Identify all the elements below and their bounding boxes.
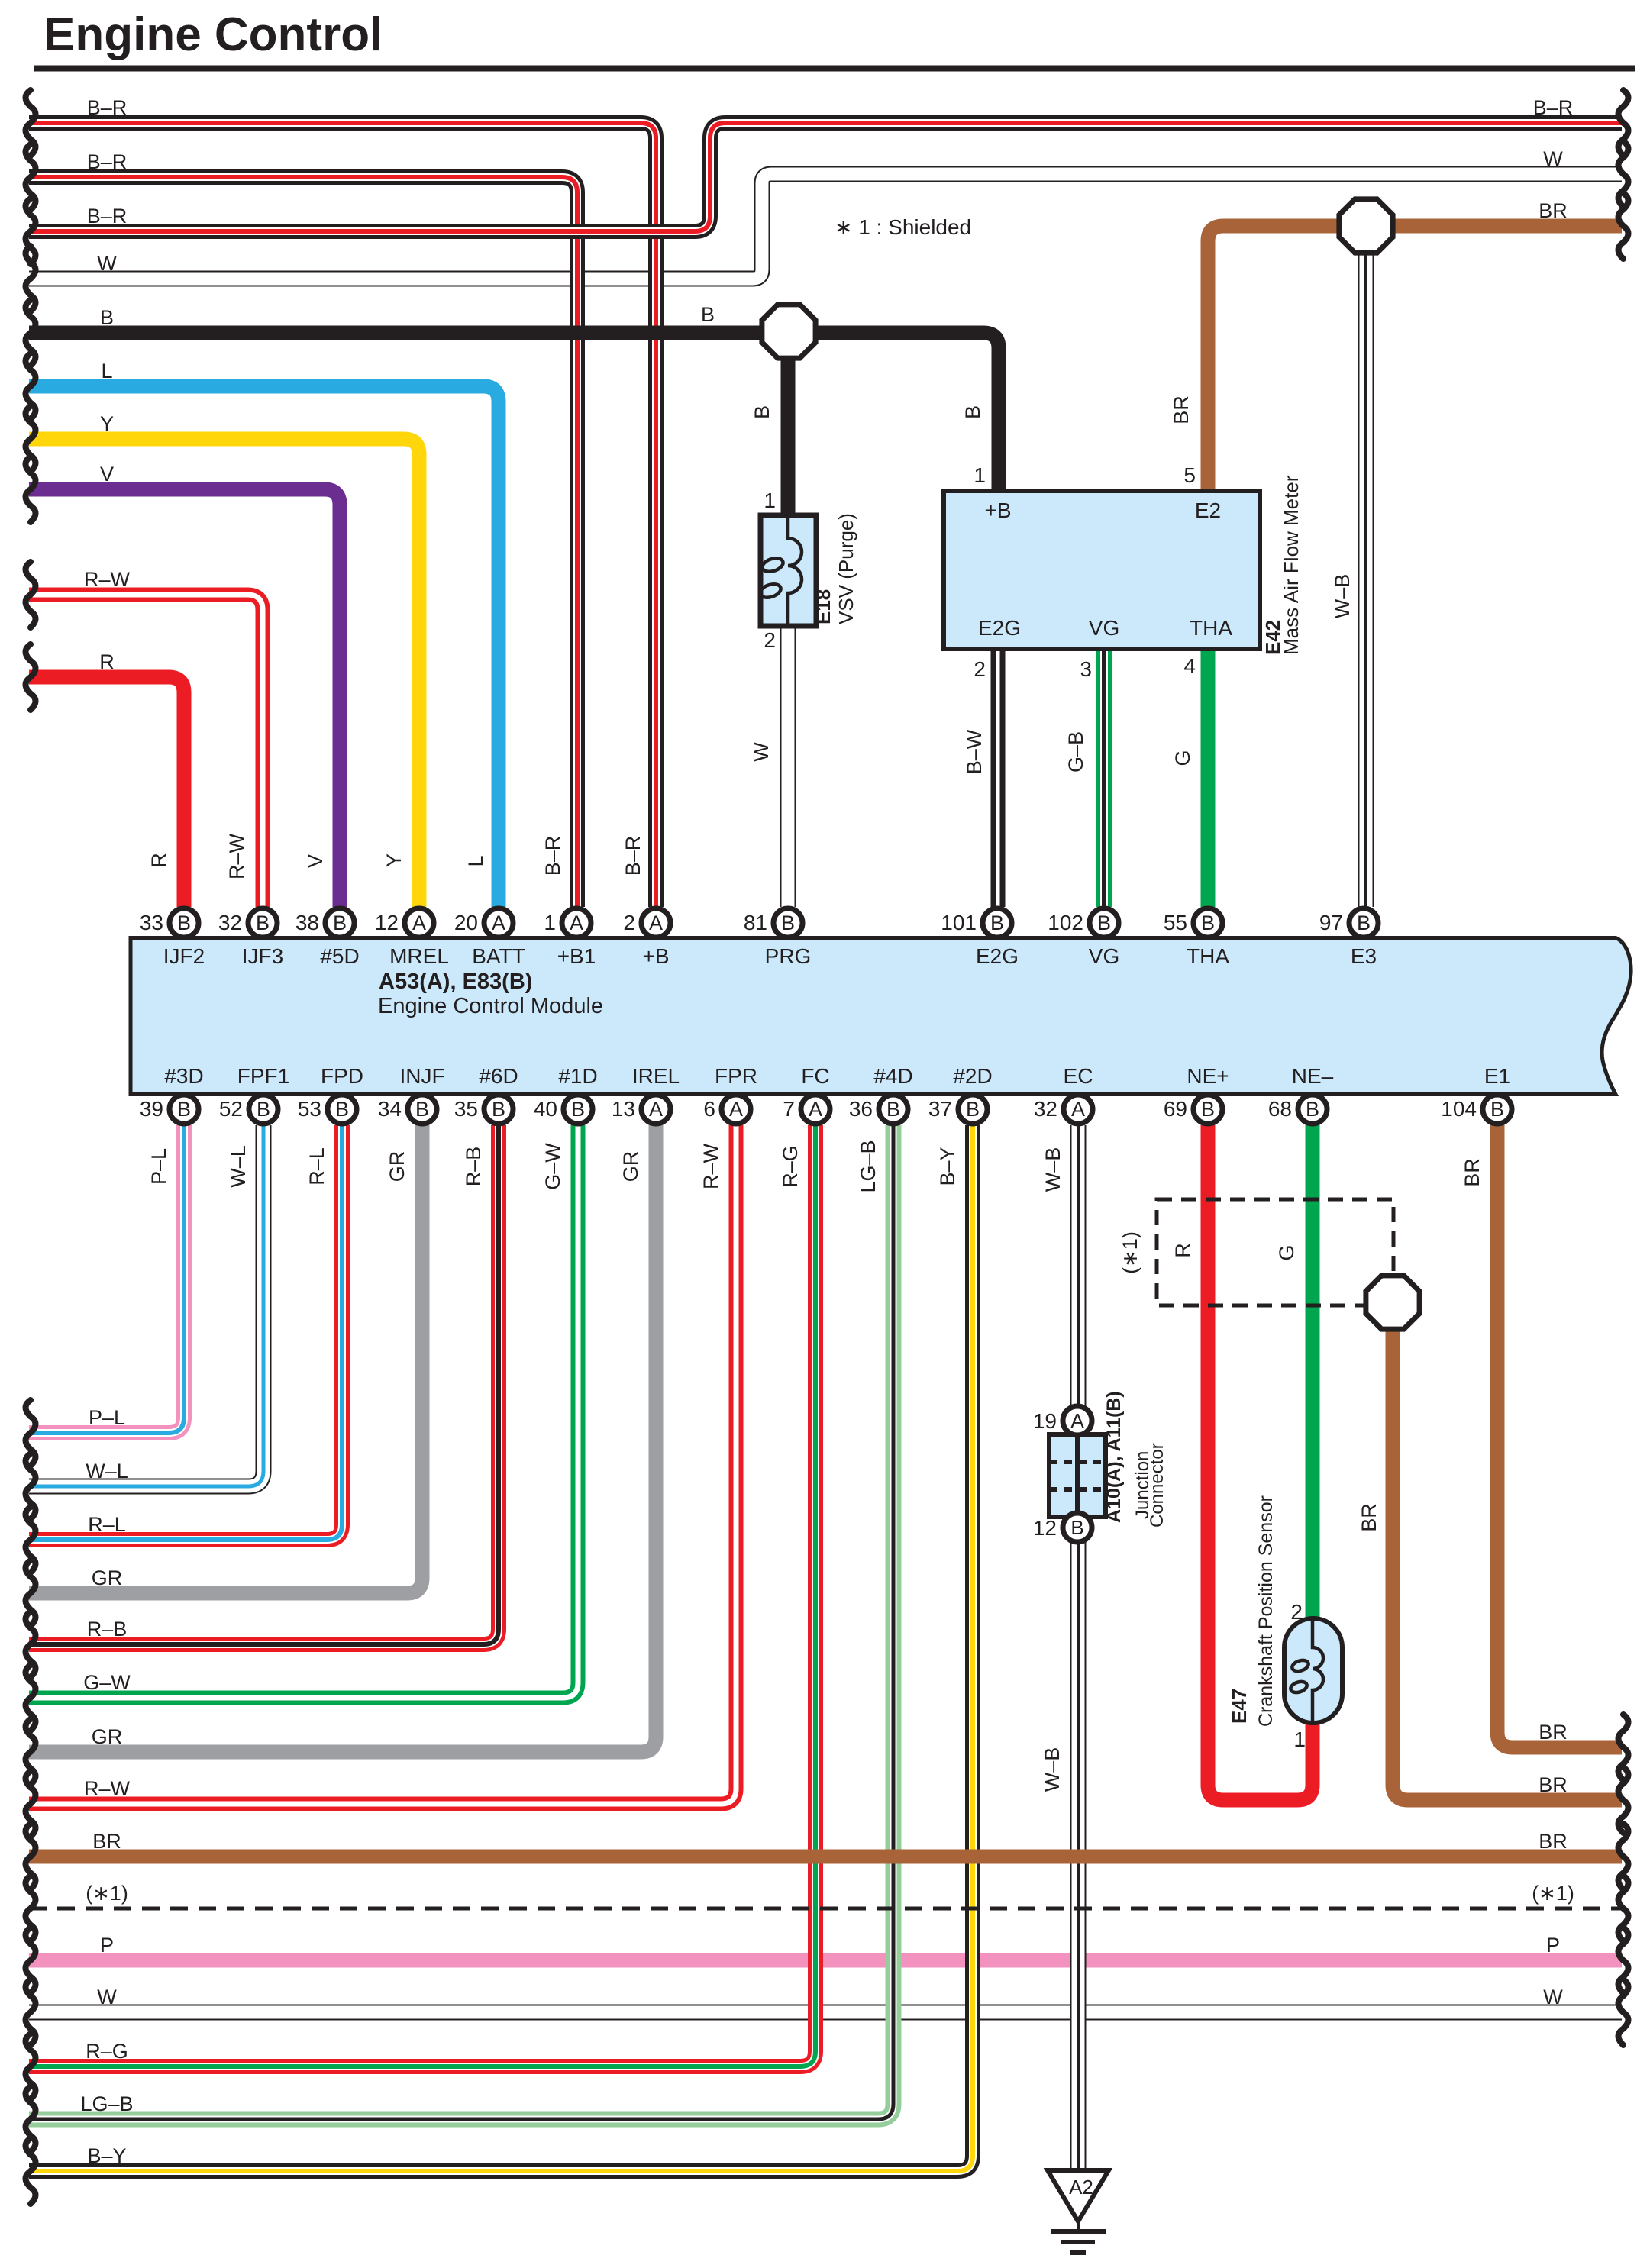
svg-text:W–B: W–B — [1041, 1747, 1064, 1792]
svg-text:B: B — [256, 911, 270, 934]
svg-text:R–W: R–W — [84, 1777, 131, 1800]
svg-text:B: B — [990, 911, 1004, 934]
svg-text:2: 2 — [764, 628, 776, 652]
svg-text:VSV (Purge): VSV (Purge) — [835, 513, 857, 624]
svg-text:B: B — [781, 911, 795, 934]
svg-text:35: 35 — [454, 1097, 478, 1121]
svg-text:B: B — [1357, 911, 1371, 934]
svg-text:E47: E47 — [1228, 1689, 1251, 1724]
svg-text:IJF2: IJF2 — [163, 944, 205, 968]
svg-text:33: 33 — [140, 911, 163, 934]
svg-text:68: 68 — [1268, 1097, 1292, 1121]
svg-text:B: B — [961, 405, 984, 419]
svg-text:FPR: FPR — [715, 1064, 757, 1088]
svg-text:P: P — [100, 1934, 114, 1957]
svg-text:1: 1 — [974, 463, 986, 487]
svg-text:R–L: R–L — [305, 1147, 328, 1186]
svg-text:B–R: B–R — [541, 836, 564, 876]
svg-text:W–L: W–L — [227, 1145, 250, 1188]
svg-text:Y: Y — [100, 412, 114, 435]
svg-text:3: 3 — [1080, 657, 1092, 681]
svg-text:W: W — [750, 742, 773, 762]
svg-text:1: 1 — [544, 911, 556, 934]
svg-text:40: 40 — [534, 1097, 557, 1121]
svg-text:13: 13 — [612, 1097, 635, 1121]
svg-text:20: 20 — [454, 911, 478, 934]
svg-text:BR: BR — [1461, 1158, 1484, 1187]
svg-text:GR: GR — [92, 1725, 123, 1748]
svg-text:A10(A), A11(B): A10(A), A11(B) — [1103, 1391, 1125, 1523]
svg-text:#5D: #5D — [320, 944, 359, 968]
svg-text:E3: E3 — [1351, 944, 1377, 968]
svg-text:G–B: G–B — [1064, 731, 1087, 773]
svg-text:B: B — [100, 306, 114, 329]
svg-text:E2: E2 — [1195, 498, 1221, 522]
svg-text:97: 97 — [1319, 911, 1343, 934]
svg-text:R–L: R–L — [88, 1513, 126, 1536]
svg-text:B: B — [177, 1098, 191, 1121]
svg-text:R: R — [1171, 1243, 1194, 1258]
svg-text:A: A — [649, 911, 663, 934]
svg-text:V: V — [304, 854, 327, 868]
svg-text:W: W — [97, 252, 117, 275]
svg-text:81: 81 — [744, 911, 767, 934]
svg-text:B–Y: B–Y — [936, 1147, 959, 1186]
svg-text:B–R: B–R — [87, 96, 128, 119]
svg-text:P: P — [1546, 1934, 1560, 1957]
svg-text:B: B — [886, 1098, 900, 1121]
svg-text:B: B — [1097, 911, 1111, 934]
svg-text:7: 7 — [783, 1097, 795, 1121]
svg-text:W–B: W–B — [1331, 574, 1354, 619]
svg-text:G–W: G–W — [541, 1143, 564, 1190]
svg-text:12: 12 — [375, 911, 399, 934]
svg-text:A53(A), E83(B): A53(A), E83(B) — [379, 969, 532, 994]
svg-text:#2D: #2D — [953, 1064, 992, 1088]
svg-text:B: B — [701, 303, 715, 326]
svg-text:A2: A2 — [1069, 2176, 1093, 2199]
svg-text:A: A — [1070, 1409, 1084, 1432]
svg-text:2: 2 — [1290, 1600, 1303, 1624]
svg-text:R: R — [147, 853, 170, 868]
svg-text:B: B — [1490, 1098, 1504, 1121]
svg-text:A: A — [1071, 1098, 1085, 1121]
svg-text:R: R — [99, 650, 115, 673]
svg-text:INJF: INJF — [399, 1064, 444, 1088]
svg-text:Y: Y — [383, 853, 405, 867]
svg-text:BR: BR — [1539, 1773, 1568, 1796]
svg-text:B: B — [571, 1098, 585, 1121]
svg-text:B–R: B–R — [87, 205, 128, 227]
svg-text:THA: THA — [1190, 616, 1232, 640]
svg-text:2: 2 — [974, 657, 986, 681]
svg-text:1: 1 — [764, 489, 776, 512]
svg-text:55: 55 — [1164, 911, 1187, 934]
svg-text:P–L: P–L — [89, 1406, 125, 1429]
svg-text:A: A — [649, 1098, 663, 1121]
svg-text:37: 37 — [928, 1097, 952, 1121]
svg-text:B: B — [1306, 1098, 1319, 1121]
svg-text:B–R: B–R — [1533, 96, 1574, 119]
svg-text:W–L: W–L — [86, 1460, 128, 1482]
svg-text:E2G: E2G — [976, 944, 1019, 968]
svg-text:2: 2 — [623, 911, 635, 934]
svg-text:EC: EC — [1064, 1064, 1093, 1088]
svg-text:THA: THA — [1187, 944, 1229, 968]
svg-text:5: 5 — [1183, 463, 1196, 487]
svg-text:Crankshaft Position Sensor: Crankshaft Position Sensor — [1255, 1495, 1277, 1727]
svg-text:BR: BR — [92, 1830, 121, 1853]
svg-text:P–L: P–L — [147, 1148, 170, 1185]
svg-text:L: L — [101, 360, 112, 382]
svg-text:LG–B: LG–B — [857, 1140, 880, 1192]
svg-text:39: 39 — [140, 1097, 163, 1121]
svg-text:B: B — [1201, 1098, 1215, 1121]
svg-text:BR: BR — [1539, 1721, 1568, 1744]
svg-text:R–W: R–W — [699, 1143, 722, 1189]
svg-text:∗ 1 : Shielded: ∗ 1 : Shielded — [835, 215, 971, 239]
svg-text:A: A — [492, 911, 505, 934]
svg-text:(∗1): (∗1) — [86, 1882, 128, 1905]
svg-text:Mass Air Flow Meter: Mass Air Flow Meter — [1280, 475, 1303, 655]
svg-text:Engine Control Module: Engine Control Module — [378, 994, 603, 1018]
svg-text:E18: E18 — [812, 589, 835, 624]
svg-text:NE–: NE– — [1292, 1064, 1334, 1088]
svg-text:GR: GR — [92, 1566, 123, 1589]
svg-text:1: 1 — [1293, 1728, 1306, 1751]
svg-text:36: 36 — [849, 1097, 873, 1121]
svg-text:102: 102 — [1048, 911, 1083, 934]
svg-text:38: 38 — [295, 911, 319, 934]
svg-text:52: 52 — [219, 1097, 243, 1121]
svg-text:FPF1: FPF1 — [237, 1064, 289, 1088]
svg-text:(∗1): (∗1) — [1119, 1231, 1141, 1274]
svg-text:4: 4 — [1183, 654, 1196, 678]
svg-text:B: B — [966, 1098, 980, 1121]
svg-text:+B: +B — [642, 944, 669, 968]
svg-text:34: 34 — [378, 1097, 402, 1121]
svg-text:W: W — [97, 1986, 117, 2008]
svg-text:+B1: +B1 — [557, 944, 596, 968]
svg-text:G: G — [1171, 750, 1194, 766]
svg-text:G–W: G–W — [83, 1671, 131, 1694]
svg-text:LG–B: LG–B — [80, 2092, 133, 2115]
svg-text:A: A — [809, 1098, 822, 1121]
svg-text:#3D: #3D — [164, 1064, 203, 1088]
svg-text:#6D: #6D — [479, 1064, 518, 1088]
svg-text:VG: VG — [1089, 944, 1119, 968]
svg-text:Engine Control: Engine Control — [44, 8, 383, 61]
svg-text:12: 12 — [1033, 1516, 1057, 1540]
svg-text:NE+: NE+ — [1187, 1064, 1229, 1088]
svg-text:B: B — [335, 1098, 349, 1121]
svg-text:BR: BR — [1539, 1830, 1568, 1853]
svg-text:53: 53 — [298, 1097, 321, 1121]
svg-text:BATT: BATT — [472, 944, 525, 968]
svg-text:B: B — [1201, 911, 1215, 934]
svg-text:MREL: MREL — [389, 944, 449, 968]
svg-text:6: 6 — [703, 1097, 715, 1121]
svg-text:GR: GR — [386, 1151, 408, 1182]
svg-text:VG: VG — [1089, 616, 1119, 640]
svg-text:A: A — [412, 911, 426, 934]
svg-text:R–W: R–W — [225, 833, 248, 879]
svg-text:L: L — [464, 855, 487, 866]
svg-text:#4D: #4D — [873, 1064, 912, 1088]
svg-text:W: W — [1543, 147, 1563, 170]
svg-text:B–R: B–R — [87, 150, 128, 173]
svg-text:B: B — [257, 1098, 270, 1121]
svg-text:32: 32 — [218, 911, 242, 934]
svg-text:W: W — [1543, 1986, 1563, 2008]
svg-text:R–B: R–B — [462, 1147, 485, 1187]
svg-text:R–B: R–B — [87, 1618, 128, 1641]
svg-text:G: G — [1275, 1244, 1298, 1260]
svg-text:IREL: IREL — [632, 1064, 680, 1088]
svg-text:A: A — [729, 1098, 743, 1121]
svg-text:BR: BR — [1170, 395, 1193, 424]
svg-text:BR: BR — [1539, 199, 1568, 222]
svg-text:W–B: W–B — [1041, 1147, 1064, 1192]
svg-text:PRG: PRG — [765, 944, 812, 968]
svg-text:B: B — [751, 405, 773, 419]
svg-text:V: V — [100, 463, 114, 486]
svg-text:B–R: B–R — [622, 836, 644, 876]
svg-text:32: 32 — [1034, 1097, 1057, 1121]
svg-text:B–W: B–W — [963, 729, 986, 774]
svg-text:GR: GR — [619, 1151, 642, 1182]
svg-text:FC: FC — [801, 1064, 829, 1088]
svg-text:Connector: Connector — [1147, 1443, 1167, 1528]
svg-text:BR: BR — [1358, 1503, 1380, 1532]
svg-text:E2G: E2G — [978, 616, 1021, 640]
svg-text:B: B — [492, 1098, 505, 1121]
svg-text:B: B — [177, 911, 191, 934]
svg-text:A: A — [570, 911, 583, 934]
svg-text:B: B — [333, 911, 347, 934]
svg-text:R–G: R–G — [779, 1145, 802, 1188]
svg-text:19: 19 — [1033, 1409, 1057, 1433]
svg-text:R–G: R–G — [86, 2040, 128, 2063]
svg-text:104: 104 — [1441, 1097, 1477, 1121]
svg-text:E1: E1 — [1484, 1064, 1510, 1088]
svg-text:B: B — [415, 1098, 429, 1121]
svg-text:+B: +B — [984, 498, 1011, 522]
svg-text:101: 101 — [941, 911, 977, 934]
svg-text:69: 69 — [1164, 1097, 1187, 1121]
svg-text:#1D: #1D — [558, 1064, 597, 1088]
svg-text:B–Y: B–Y — [87, 2144, 126, 2167]
svg-text:R–W: R–W — [84, 568, 131, 591]
svg-text:FPD: FPD — [321, 1064, 363, 1088]
svg-text:(∗1): (∗1) — [1532, 1882, 1574, 1905]
svg-text:IJF3: IJF3 — [242, 944, 283, 968]
svg-text:B: B — [1070, 1516, 1083, 1539]
